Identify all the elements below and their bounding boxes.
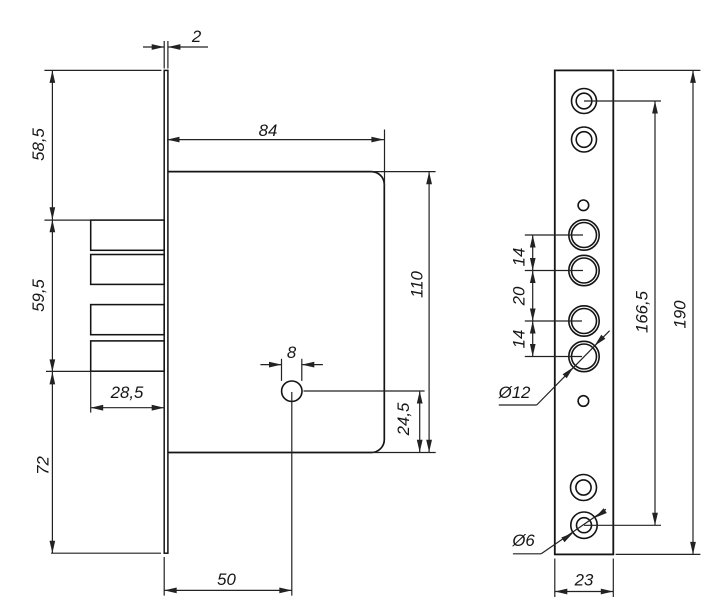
svg-text:110: 110 <box>408 270 427 297</box>
svg-text:Ø6: Ø6 <box>511 531 535 550</box>
svg-text:84: 84 <box>259 121 278 140</box>
svg-text:59,5: 59,5 <box>29 279 48 312</box>
svg-text:28,5: 28,5 <box>110 383 144 402</box>
svg-text:14: 14 <box>510 330 529 349</box>
svg-text:8: 8 <box>287 343 297 362</box>
svg-text:20: 20 <box>510 286 529 306</box>
svg-text:50: 50 <box>217 570 236 589</box>
svg-text:166,5: 166,5 <box>633 290 652 333</box>
svg-text:Ø12: Ø12 <box>498 383 531 402</box>
svg-text:23: 23 <box>574 571 594 590</box>
svg-text:14: 14 <box>510 248 529 267</box>
svg-text:2: 2 <box>191 27 202 46</box>
svg-text:190: 190 <box>671 300 690 329</box>
svg-text:24,5: 24,5 <box>394 402 413 436</box>
svg-text:72: 72 <box>34 456 53 475</box>
svg-text:58,5: 58,5 <box>29 128 48 161</box>
